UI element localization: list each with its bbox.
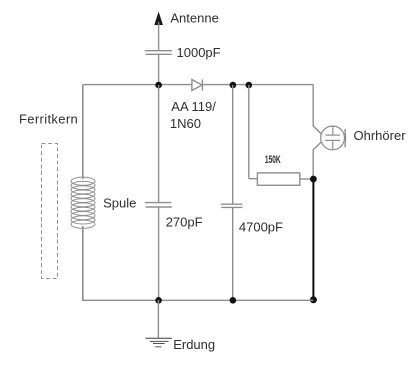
wire ground stub — [157, 300, 159, 338]
wire resistor to node D — [300, 178, 314, 180]
antenna arrow — [154, 12, 163, 26]
label Antenne — [170, 11, 218, 26]
label Ferritkern — [19, 111, 78, 126]
wire bottom rail — [82, 299, 313, 301]
wire C2 down to bottom rail — [158, 207, 160, 300]
node C junction dot — [246, 82, 253, 89]
diode D1 AA119/1N60 — [192, 80, 203, 91]
svg-text:Erdung: Erdung — [173, 337, 215, 352]
label Spule — [103, 196, 136, 211]
label Ohrhoerer — [354, 128, 407, 143]
label 270pF — [166, 214, 203, 229]
wire top horizontal left segment — [82, 84, 191, 86]
wire diode cathode to right corner — [202, 84, 313, 86]
label AA 119/ 1N60 — [170, 99, 216, 131]
wire top corner down to earphone — [313, 84, 322, 134]
wire left rail lower — [82, 226, 84, 301]
ground — [145, 338, 171, 347]
wire heavy right rail — [312, 179, 314, 300]
wire left rail upper — [82, 85, 84, 179]
svg-text:Antenne: Antenne — [170, 11, 218, 26]
wire node C down to resistor — [249, 85, 258, 179]
svg-text:1N60: 1N60 — [170, 116, 201, 131]
wire earphone down to node D — [313, 142, 322, 179]
earphone shell bracket — [344, 129, 347, 147]
svg-text:150K: 150K — [265, 153, 281, 165]
node E junction dot — [310, 296, 317, 303]
svg-text:Spule: Spule — [103, 196, 136, 211]
label 4700pF — [239, 220, 283, 235]
node D junction dot — [310, 176, 317, 183]
svg-text:Ferritkern: Ferritkern — [19, 111, 78, 126]
svg-text:270pF: 270pF — [166, 214, 203, 229]
wire node A down to C2 — [158, 85, 160, 202]
capacitor C2 270pF — [145, 203, 172, 207]
antenna lead wire — [158, 22, 160, 50]
earphone crystal element — [325, 126, 340, 149]
label 1000pF — [177, 45, 221, 60]
svg-text:Ohrhörer: Ohrhörer — [354, 128, 407, 143]
capacitor C1 1000pF — [145, 51, 172, 55]
earphone body circle — [321, 126, 345, 150]
node A junction dot — [155, 82, 162, 89]
svg-text:AA 119/: AA 119/ — [171, 99, 216, 114]
node B junction dot — [230, 82, 237, 89]
svg-text:1000pF: 1000pF — [177, 45, 221, 60]
node G junction dot — [230, 297, 237, 304]
wire C3 down to bottom rail — [232, 208, 234, 301]
inductor L1 coil — [71, 177, 95, 228]
resistor R1 150K body — [257, 173, 299, 185]
label Erdung — [173, 337, 215, 352]
node F junction dot — [155, 297, 162, 304]
svg-text:4700pF: 4700pF — [239, 220, 283, 235]
capacitor C3 4700pF — [221, 204, 243, 207]
wire C1 to node A — [158, 55, 160, 85]
label 150K — [265, 153, 281, 165]
wire node B down to C3 — [232, 85, 234, 204]
ferrite core dashed outline — [42, 144, 58, 279]
